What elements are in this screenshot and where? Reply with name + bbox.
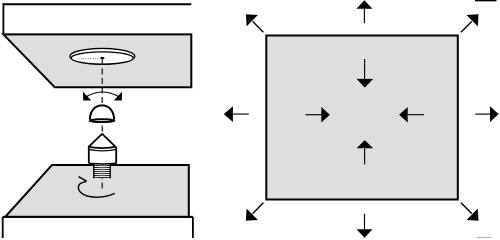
top plate front face top edge <box>2 3 191 5</box>
cone tip <box>89 134 116 148</box>
right diagram rectangle <box>266 36 458 200</box>
hidden dotted line in hole <box>79 57 101 60</box>
outside arrow right <box>475 113 490 115</box>
thread line 2 <box>94 166 110 168</box>
center axis dashed line <box>101 59 103 190</box>
bottom plate bottom edge extension <box>3 216 193 218</box>
thread line 4 <box>94 170 110 172</box>
corner arrow top-left <box>253 21 264 32</box>
corner arrow top-right <box>461 21 472 32</box>
inside arrow up <box>364 148 366 164</box>
ball dome <box>90 105 114 119</box>
ball base ellipse <box>90 119 115 122</box>
body right edge <box>115 147 117 163</box>
thread side left <box>93 164 95 179</box>
bottom plate front left edge <box>2 217 4 238</box>
thread line 6 <box>94 174 110 176</box>
top plate gray slab <box>3 34 191 87</box>
outside arrow down <box>364 214 366 229</box>
inside arrow leftward <box>408 114 424 116</box>
thread side right <box>109 164 111 179</box>
body left edge <box>88 147 90 163</box>
stray line top right <box>475 0 497 2</box>
threads white fill <box>94 163 110 178</box>
thread line 1 <box>94 164 110 166</box>
thread line 3 <box>94 168 110 170</box>
rotation arrow barb <box>79 177 87 182</box>
thread line 7 <box>94 176 110 178</box>
body bottom curve <box>89 162 116 165</box>
bottom plate gray top surface <box>5 165 189 217</box>
stray line bottom right <box>477 236 492 238</box>
screw body <box>89 147 116 164</box>
corner arrow bottom-left <box>253 203 264 214</box>
top plate front face left edge <box>2 3 4 34</box>
bottom plate front right edge <box>192 217 194 238</box>
hole inner ellipse <box>71 52 133 64</box>
corner arrow bottom-right <box>461 203 472 214</box>
swivel arrow left head <box>83 92 91 101</box>
thread line 5 <box>94 172 110 174</box>
rotation arrow arc <box>78 181 114 197</box>
inside arrow rightward <box>306 114 322 116</box>
inside arrow down <box>364 59 366 79</box>
swivel arc double-headed arrow <box>87 92 119 96</box>
body top rim arc <box>89 149 116 151</box>
outside arrow up <box>363 9 365 24</box>
hole outer ellipse <box>70 48 135 64</box>
outside arrow left <box>233 113 249 115</box>
hole center dot <box>100 57 104 59</box>
swivel arrow right head <box>114 92 122 101</box>
